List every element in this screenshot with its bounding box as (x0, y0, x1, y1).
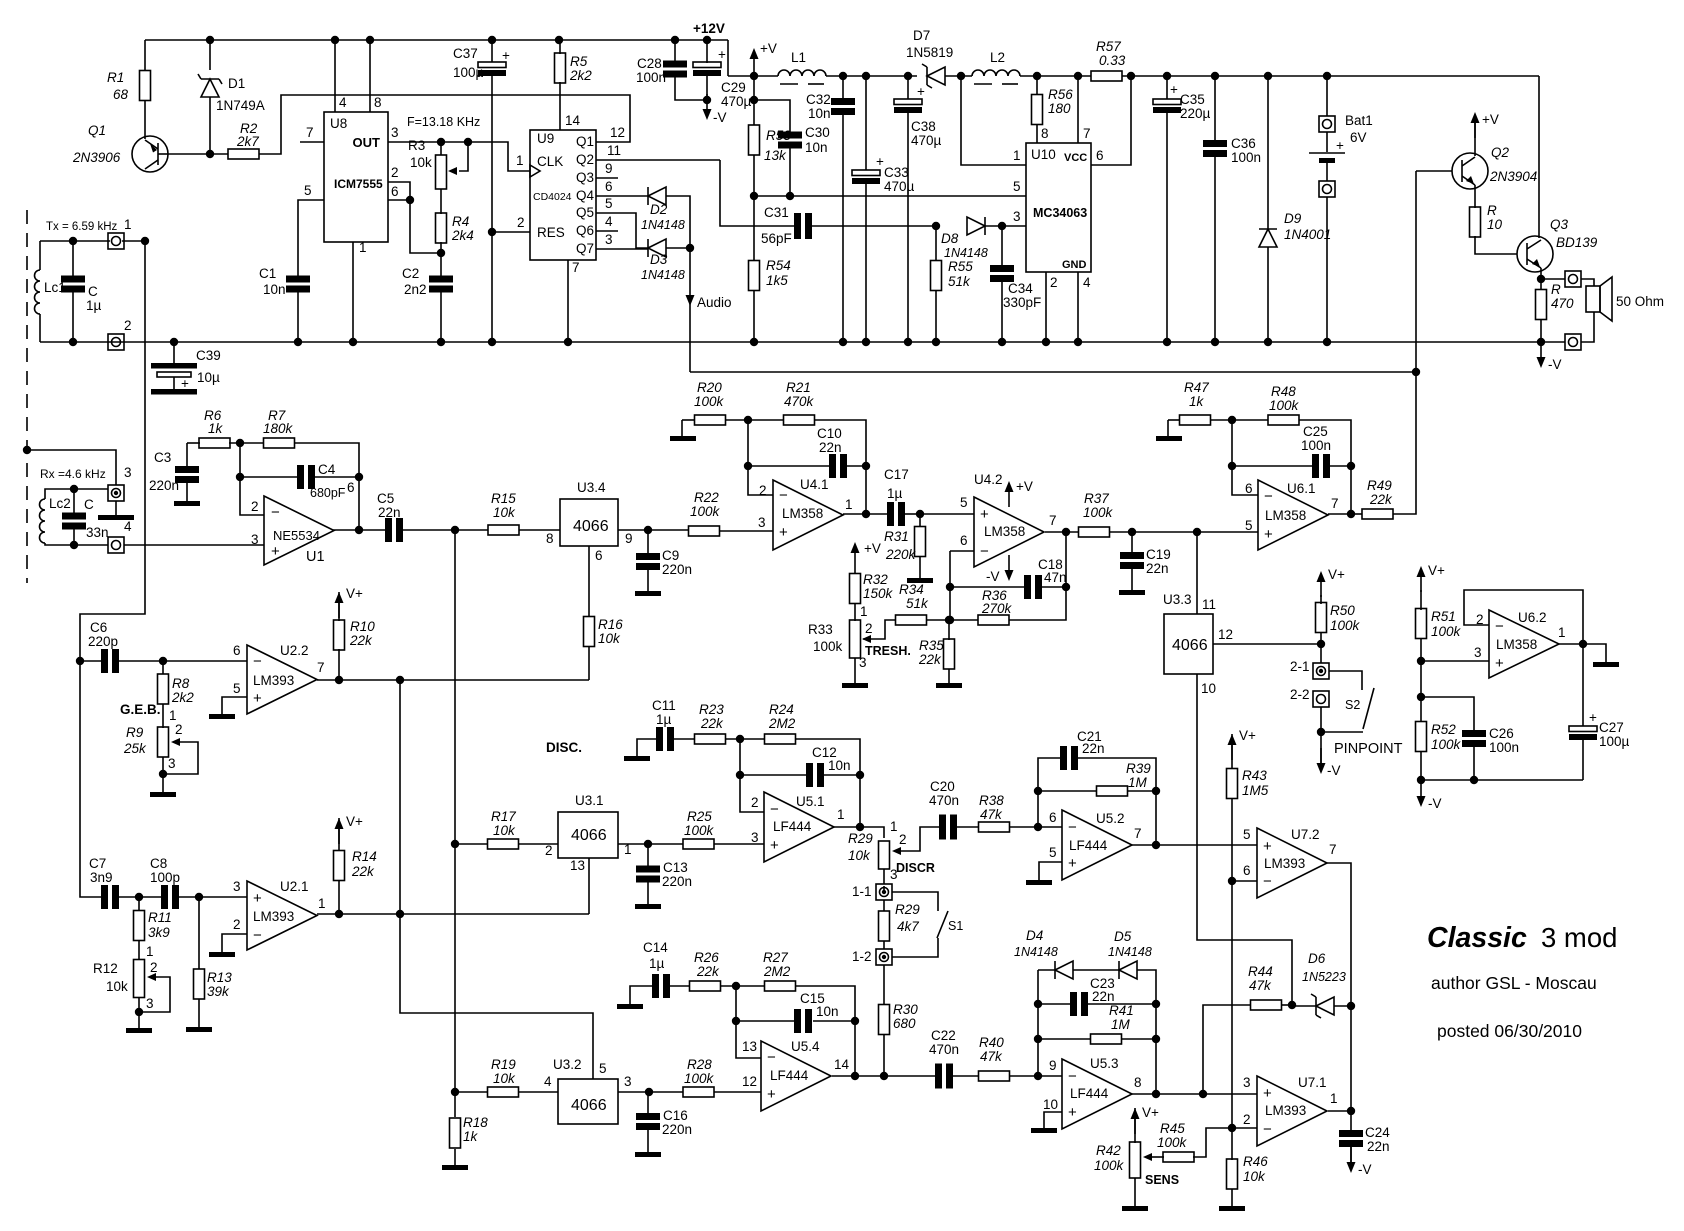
capacitor C34 (990, 265, 1014, 282)
svg-text:ICM7555: ICM7555 (334, 177, 383, 191)
svg-text:Q1: Q1 (88, 123, 106, 138)
wire (1038, 1038, 1091, 1040)
svg-text:7: 7 (306, 125, 314, 140)
junction (331, 36, 339, 44)
svg-text:U2.2: U2.2 (280, 643, 309, 658)
svg-text:680: 680 (893, 1016, 916, 1031)
svg-text:180k: 180k (263, 421, 294, 436)
svg-text:10µ: 10µ (197, 370, 220, 385)
wire (138, 998, 140, 1028)
svg-text:12: 12 (610, 125, 625, 140)
svg-text:U1: U1 (306, 549, 325, 565)
wire (403, 529, 488, 531)
junction (488, 36, 496, 44)
wire audio to Q2 base (690, 371, 1416, 373)
svg-text:C16: C16 (663, 1108, 688, 1123)
wire U5.3 pin 10 (1044, 1112, 1062, 1128)
svg-text:1N4148: 1N4148 (1014, 945, 1058, 959)
wire (1078, 758, 1156, 845)
svg-text:+: + (1068, 855, 1077, 872)
wire (1581, 312, 1594, 342)
svg-text:D1: D1 (228, 76, 245, 91)
svg-text:C: C (84, 497, 94, 512)
wire (1350, 1111, 1352, 1131)
svg-text:100µ: 100µ (1599, 734, 1630, 749)
ground U5.2 pin5 (1026, 880, 1052, 885)
junction (1074, 338, 1082, 346)
wire U6.2 feedback (1464, 590, 1583, 644)
junction (1412, 368, 1420, 376)
svg-text:3 mod: 3 mod (1541, 922, 1617, 953)
capacitor C16 (636, 1113, 660, 1130)
svg-text:1N749A: 1N749A (216, 98, 265, 113)
arrow -V R52 (1417, 781, 1426, 807)
svg-text:DISCR: DISCR (896, 861, 935, 875)
svg-text:10k: 10k (106, 979, 128, 994)
svg-text:Q2: Q2 (1491, 145, 1510, 160)
svg-text:22n: 22n (1146, 561, 1169, 576)
switch S1 blade (937, 911, 948, 938)
svg-text:51k: 51k (906, 596, 929, 611)
junction (957, 72, 965, 80)
svg-text:RES: RES (537, 225, 565, 240)
wire (1299, 420, 1351, 514)
wire U9 RES pin 2 (492, 231, 530, 233)
capacitor C10 (829, 454, 847, 478)
svg-text:U5.4: U5.4 (791, 1039, 820, 1054)
svg-text:Q5: Q5 (576, 205, 594, 220)
junction (1470, 776, 1478, 784)
wire (726, 738, 765, 740)
wire (647, 1092, 649, 1114)
wire (122, 240, 145, 242)
wire (1540, 319, 1542, 342)
wire (1267, 247, 1269, 342)
wire (1421, 779, 1583, 781)
svg-text:6: 6 (1049, 810, 1057, 825)
junction (294, 338, 302, 346)
capacitor C37 (478, 62, 506, 76)
junction (406, 196, 414, 204)
wire (1326, 197, 1328, 342)
svg-text:+: + (876, 154, 884, 169)
wire (440, 189, 442, 214)
svg-text:R10: R10 (350, 619, 375, 634)
svg-text:2: 2 (251, 499, 259, 514)
junction (355, 526, 363, 534)
wire (706, 40, 708, 63)
svg-text:68: 68 (113, 87, 129, 102)
diode D5 (1119, 961, 1137, 979)
svg-text:R35: R35 (919, 638, 944, 653)
svg-text:4k7: 4k7 (897, 919, 919, 934)
resistor R34 (896, 615, 927, 625)
ground U6.2 out (1593, 662, 1619, 667)
wire (1420, 638, 1422, 722)
wire R33 wiper to R34 (863, 620, 896, 639)
wire (714, 843, 764, 845)
wire (1214, 156, 1216, 342)
svg-text:5: 5 (304, 183, 312, 198)
svg-text:8: 8 (1134, 1075, 1142, 1090)
svg-text:−: − (253, 653, 262, 670)
wire (1122, 75, 1539, 77)
wire (187, 442, 200, 444)
svg-text:2k4: 2k4 (451, 228, 474, 243)
svg-text:4066: 4066 (1172, 637, 1208, 654)
svg-text:100k: 100k (1094, 1158, 1125, 1173)
svg-text:7: 7 (572, 260, 580, 275)
resistor R5 (555, 53, 566, 83)
svg-text:LF444: LF444 (770, 1068, 809, 1083)
svg-text:R1: R1 (107, 70, 124, 85)
wire (854, 568, 856, 574)
svg-text:2: 2 (233, 917, 241, 932)
capacitor C36 (1203, 140, 1227, 157)
wire (39, 314, 41, 342)
resistor R17 (488, 839, 519, 849)
svg-text:U5.1: U5.1 (796, 794, 825, 809)
svg-text:+: + (1336, 138, 1344, 153)
junction (437, 138, 445, 146)
resistor R45 (1163, 1152, 1194, 1162)
wire U8 pin2/6 (388, 182, 441, 253)
junction (750, 96, 758, 104)
svg-text:-V: -V (1327, 763, 1341, 778)
wire Q2 base (1416, 170, 1452, 172)
svg-text:2k2: 2k2 (171, 690, 194, 705)
resistor R37 (1079, 527, 1110, 537)
junction (396, 676, 404, 684)
svg-text:C39: C39 (196, 348, 221, 363)
wire (854, 603, 856, 621)
op-amp U4.1 LM358 (773, 480, 843, 550)
wire (168, 153, 210, 155)
wire (647, 881, 649, 904)
junction (851, 1072, 859, 1080)
wire (72, 292, 74, 342)
wire (630, 986, 652, 1004)
wire (883, 900, 885, 911)
svg-text:10n: 10n (805, 140, 828, 155)
op-amp U5.2 LF444 (1062, 810, 1132, 880)
wire (647, 530, 649, 554)
svg-text:R31: R31 (884, 529, 909, 544)
wire (721, 985, 765, 987)
junction (141, 237, 149, 245)
svg-text:U5.2: U5.2 (1096, 811, 1125, 826)
svg-text:R: R (1487, 203, 1497, 218)
wire S1 top (892, 892, 938, 911)
svg-text:6: 6 (233, 643, 241, 658)
svg-text:−: − (779, 487, 788, 504)
svg-text:R37: R37 (1084, 491, 1109, 506)
arrow V+ R50 (1317, 571, 1326, 597)
wire (338, 818, 340, 851)
svg-text:1: 1 (146, 944, 154, 959)
wire (491, 40, 493, 62)
wire U9 pin 14 (559, 82, 561, 130)
junction (1228, 1124, 1236, 1132)
svg-text:100k: 100k (1269, 398, 1300, 413)
wire (73, 529, 75, 545)
svg-text:L2: L2 (990, 50, 1005, 65)
svg-text:100k: 100k (1157, 1135, 1188, 1150)
svg-text:47k: 47k (980, 807, 1003, 822)
wire (842, 76, 844, 99)
junction (750, 72, 758, 80)
wire (80, 660, 101, 662)
junction (488, 228, 496, 236)
svg-text:5: 5 (960, 495, 968, 510)
ground C19 (1119, 590, 1145, 595)
svg-text:R20: R20 (697, 380, 722, 395)
junction (355, 473, 363, 481)
svg-text:R47: R47 (1184, 380, 1209, 395)
wire (905, 513, 920, 515)
svg-text:1N4148: 1N4148 (641, 268, 685, 282)
svg-text:7: 7 (1134, 826, 1142, 841)
shield dashed line (26, 210, 28, 583)
svg-text:100k: 100k (1431, 624, 1462, 639)
svg-text:1: 1 (860, 604, 868, 619)
svg-text:100k: 100k (690, 504, 721, 519)
svg-text:Q1: Q1 (576, 134, 594, 149)
svg-text:C: C (88, 284, 98, 299)
ground R46 (1219, 1206, 1245, 1211)
svg-text:R33: R33 (808, 622, 833, 637)
capacitor C21 (1060, 746, 1078, 770)
svg-text:10k: 10k (493, 1071, 516, 1086)
svg-text:C28: C28 (637, 56, 662, 71)
junction (703, 96, 711, 104)
svg-text:1: 1 (837, 807, 845, 822)
svg-text:U4.1: U4.1 (800, 477, 829, 492)
wire U4.2 pin 6 (950, 550, 974, 552)
wire (45, 543, 74, 545)
wire R9 wiper (163, 742, 198, 774)
wire (865, 184, 867, 342)
svg-text:DISC.: DISC. (546, 740, 582, 755)
wire (1415, 171, 1417, 372)
svg-text:C22: C22 (931, 1028, 956, 1043)
wire (1231, 1128, 1233, 1160)
svg-text:220p: 220p (88, 634, 118, 649)
resistor R10 (334, 620, 345, 650)
svg-text:+V: +V (864, 541, 881, 556)
analog switch U3.3 (1164, 614, 1213, 674)
svg-text:4: 4 (544, 1074, 552, 1089)
svg-text:2: 2 (124, 318, 132, 333)
svg-text:posted 06/30/2010: posted 06/30/2010 (1437, 1021, 1582, 1041)
svg-text:13: 13 (742, 1039, 757, 1054)
wire U1 output (333, 529, 385, 531)
junction (70, 541, 78, 549)
wire (670, 985, 690, 987)
arrow V+ R14 (335, 818, 344, 844)
svg-text:100n: 100n (636, 70, 666, 85)
wire to U1 pin 3 (124, 544, 264, 546)
svg-text:6: 6 (391, 184, 399, 199)
ground bar pin3 (98, 515, 134, 520)
capacitor C19 (1120, 552, 1144, 569)
wire (648, 529, 689, 531)
resistor R53 (749, 125, 760, 155)
capacitor C4 (297, 465, 315, 489)
wire (795, 739, 860, 827)
junction (904, 338, 912, 346)
svg-text:C37: C37 (453, 46, 478, 61)
svg-text:C19: C19 (1146, 547, 1171, 562)
resistor R13 (194, 969, 205, 999)
svg-text:-V: -V (1548, 357, 1562, 372)
wiper arrow R9 (171, 738, 180, 746)
wire (115, 501, 117, 515)
svg-text:1: 1 (845, 497, 853, 512)
wire (948, 620, 950, 640)
wire (338, 880, 340, 914)
junction (1417, 657, 1425, 665)
junction (69, 237, 77, 245)
svg-text:33n: 33n (86, 525, 109, 540)
wiper arrow R3 (448, 167, 457, 175)
connector pin 1 (108, 233, 124, 249)
wire (1231, 1189, 1233, 1206)
svg-text:S2: S2 (1345, 698, 1360, 712)
wire (440, 142, 442, 155)
wire feedback (1009, 532, 1066, 620)
wire (907, 113, 909, 342)
wire (1326, 76, 1328, 116)
wire (935, 226, 937, 261)
svg-text:1: 1 (1013, 148, 1021, 163)
ground C11 (624, 756, 650, 761)
connector speaker - (1565, 334, 1581, 350)
svg-text:3: 3 (605, 232, 613, 247)
wire (1334, 1005, 1351, 1007)
connector 2-2 (1313, 691, 1329, 707)
wire (388, 199, 410, 201)
wire (1073, 969, 1119, 971)
svg-text:R13: R13 (207, 970, 232, 985)
capacitor C3 (175, 466, 199, 483)
svg-text:CD4024: CD4024 (533, 191, 572, 203)
wire (240, 476, 297, 478)
svg-text:R3: R3 (408, 138, 425, 153)
junction (732, 1017, 740, 1025)
resistor R19 (488, 1087, 519, 1097)
resistor R26 (690, 981, 721, 991)
wire (883, 886, 885, 892)
svg-text:PINPOINT: PINPOINT (1334, 741, 1403, 757)
svg-text:R30: R30 (893, 1002, 918, 1017)
junction (1034, 1035, 1042, 1043)
svg-text:TRESH.: TRESH. (865, 644, 911, 658)
resistor R41 (1091, 1034, 1122, 1044)
junction (862, 462, 870, 470)
svg-text:6: 6 (1243, 863, 1251, 878)
wire +12V top rail (145, 39, 728, 41)
resistor R24 (765, 734, 796, 744)
wire (666, 196, 690, 248)
junction (1034, 1000, 1042, 1008)
wire (454, 1149, 456, 1165)
wire (754, 100, 790, 133)
ground C16 (635, 1152, 661, 1157)
wire (647, 1129, 649, 1152)
svg-text:V+: V+ (346, 586, 363, 601)
svg-text:13: 13 (570, 858, 585, 873)
svg-text:R: R (1551, 282, 1561, 297)
junction (1228, 462, 1236, 470)
wire (725, 419, 784, 421)
resistor R7 (264, 438, 295, 448)
svg-text:9: 9 (625, 531, 633, 546)
svg-text:7: 7 (317, 660, 325, 675)
svg-text:R40: R40 (979, 1035, 1004, 1050)
junction (1228, 877, 1236, 885)
resistor R8 (158, 674, 169, 704)
svg-text:3n9: 3n9 (90, 870, 113, 885)
svg-text:10: 10 (1487, 217, 1503, 232)
junction (170, 338, 178, 346)
junction (1317, 640, 1325, 648)
resistor R6 (199, 438, 230, 448)
svg-text:6: 6 (595, 548, 603, 563)
svg-text:R27: R27 (763, 950, 788, 965)
svg-text:−: − (271, 504, 280, 521)
junction (70, 485, 78, 493)
svg-text:R23: R23 (699, 702, 724, 717)
junction (1128, 528, 1136, 536)
ground R9 (150, 792, 176, 797)
wire U3.3 pin 10 (1197, 674, 1292, 1005)
op-amp U6.1 LM358 (1258, 480, 1328, 550)
svg-text:100n: 100n (1301, 438, 1331, 453)
svg-text:2-1: 2-1 (1290, 659, 1310, 674)
wire (198, 999, 200, 1027)
resistor R25 (683, 839, 714, 849)
svg-text:14: 14 (834, 1057, 850, 1072)
svg-text:R12: R12 (93, 961, 118, 976)
arrow -V (703, 94, 712, 120)
svg-text:10k: 10k (848, 848, 871, 863)
svg-text:+: + (980, 506, 989, 523)
wire (1168, 419, 1180, 421)
ground R42 (1122, 1206, 1148, 1211)
svg-text:LM393: LM393 (253, 909, 294, 924)
wire U4.2 output (1045, 531, 1079, 533)
wire (119, 660, 163, 662)
junction (1152, 787, 1160, 795)
wire R49 to audio line (1393, 372, 1416, 514)
junction (396, 910, 404, 918)
svg-text:C6: C6 (90, 620, 107, 635)
svg-text:LM358: LM358 (1496, 637, 1537, 652)
wire U2.2 output (317, 679, 589, 681)
wire U8 pin 1 (352, 242, 354, 342)
svg-text:D8: D8 (941, 231, 959, 246)
svg-text:220µ: 220µ (1180, 106, 1211, 121)
svg-text:Q3: Q3 (576, 170, 594, 185)
wire (440, 242, 442, 253)
ground R35 (936, 683, 962, 688)
wire to R45 (1193, 1128, 1232, 1157)
svg-text:U6.2: U6.2 (1518, 610, 1547, 625)
svg-text:47n: 47n (1044, 570, 1067, 585)
capacitor C11 (656, 727, 674, 751)
svg-text:C26: C26 (1489, 726, 1514, 741)
